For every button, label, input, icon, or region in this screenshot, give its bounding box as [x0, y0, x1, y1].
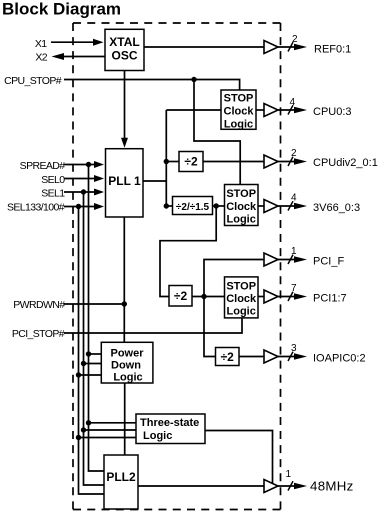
wire SEL133 stub to Power Down Logic: [79, 374, 102, 376]
wire up to PCI_F buffer: [204, 260, 264, 297]
junction div2/1.5 output: [214, 203, 219, 208]
pll U12 PLL2: [104, 455, 138, 509]
logic block U10 Power Down Logic: [101, 342, 153, 383]
output buffer CPUdiv2: [264, 148, 378, 169]
wire to div2: [166, 161, 179, 163]
wire PCI output: [278, 296, 298, 298]
wire SPREAD# into PLL 1: [64, 164, 95, 166]
buffer triangle 3V66: [264, 200, 278, 213]
wire Three-state Logic to 48MHz buffer enable: [205, 431, 273, 484]
junction SEL1: [81, 189, 86, 194]
wire SEL1 vertical bus to PLL2: [84, 192, 105, 485]
svg-text:PCI_F: PCI_F: [313, 255, 344, 267]
output buffer IOAPIC: [264, 343, 366, 364]
bus slash 3V66: [288, 201, 293, 210]
wire IOAPIC div2 to buffer: [239, 356, 264, 358]
buffer triangle PCI_F: [264, 253, 278, 266]
svg-text:4: 4: [291, 193, 297, 204]
svg-text:Three-state: Three-state: [140, 417, 199, 429]
wire STOP 3V66 to buffer: [258, 205, 264, 207]
logic block U11 Three-state Logic: [136, 414, 205, 444]
wire PWRDWN# to Power Down Logic: [64, 303, 124, 305]
wire PLL 1 feedback down to power-down node: [123, 217, 125, 342]
divider U8 ÷2 (PCI): [169, 286, 192, 307]
wire SEL1 stub to Power Down Logic: [84, 363, 102, 365]
svg-text:PWRDWN#: PWRDWN#: [13, 299, 65, 311]
svg-text:2: 2: [292, 34, 298, 45]
svg-text:PLL 1: PLL 1: [108, 174, 141, 188]
wire div2 to CPUdiv2 buffer: [203, 161, 264, 163]
wire PLL1 vertical distribution: [165, 110, 167, 207]
svg-text:CPU_STOP#: CPU_STOP#: [4, 75, 62, 87]
buffer triangle IOAPIC: [264, 350, 278, 363]
svg-text:1: 1: [286, 469, 292, 480]
logic block U7 STOP Clock Logic (PCI): [225, 277, 259, 318]
wire CPU_STOP# to STOP clock logic CPU: [64, 80, 240, 91]
junction PLL1 to div2/1.5: [164, 203, 169, 208]
wire STOP PCI to buffer: [258, 296, 264, 298]
svg-text:IOAPIC0:2: IOAPIC0:2: [313, 352, 366, 364]
svg-text:Logic: Logic: [224, 119, 253, 131]
wire SEL1 stub to Three-state Logic: [84, 429, 137, 431]
svg-text:X2: X2: [35, 52, 47, 64]
logic block U3 STOP Clock Logic (CPU): [221, 90, 256, 131]
output buffer 48MHz: [264, 469, 354, 494]
svg-text:1: 1: [291, 246, 297, 257]
wire CPU output: [278, 109, 298, 111]
svg-text:Logic: Logic: [227, 214, 256, 226]
output buffer REF: [264, 34, 351, 56]
svg-text:Clock: Clock: [226, 201, 257, 213]
pll U2 PLL 1: [106, 149, 144, 217]
svg-text:SEL0: SEL0: [41, 174, 65, 186]
svg-text:÷2: ÷2: [174, 289, 188, 303]
arrowhead IOAPIC: [294, 353, 307, 359]
bus slash PCI_F: [288, 255, 293, 264]
svg-text:3V66_0:3: 3V66_0:3: [313, 202, 360, 214]
wire to div2/1.5: [166, 205, 172, 207]
svg-text:÷2: ÷2: [221, 350, 235, 364]
svg-text:CPU0:3: CPU0:3: [313, 106, 352, 118]
junction on CPU_STOP#: [191, 77, 196, 82]
wire X1 input: [51, 41, 95, 43]
wire X2 output: [64, 56, 106, 58]
arrowhead PCI_F: [294, 256, 307, 262]
bus slash REF: [288, 42, 293, 51]
wire XTAL OSC to REF buffer: [144, 46, 264, 48]
svg-text:SEL1: SEL1: [41, 187, 65, 199]
wire REF output: [278, 46, 298, 48]
svg-text:SPREAD#: SPREAD#: [20, 160, 66, 172]
svg-text:STOP: STOP: [226, 188, 256, 200]
arrowhead PCI: [294, 293, 307, 299]
wire CPUdiv2 output: [278, 161, 298, 163]
arrowhead REF: [294, 44, 307, 50]
svg-text:7: 7: [291, 283, 297, 294]
buffer triangle PCI: [264, 290, 278, 303]
svg-text:4: 4: [290, 97, 296, 108]
logic block U6 STOP Clock Logic (3V66): [225, 185, 259, 226]
wire CPU_STOP# branch to STOP clock logic 3V66: [194, 80, 240, 185]
svg-text:X1: X1: [35, 38, 47, 50]
svg-text:PCI1:7: PCI1:7: [313, 292, 347, 304]
svg-text:Clock: Clock: [226, 293, 257, 305]
svg-text:STOP: STOP: [226, 280, 256, 292]
svg-text:Power: Power: [110, 348, 144, 360]
svg-text:SEL133/100#: SEL133/100#: [7, 201, 65, 213]
buffer triangle REF: [264, 41, 278, 54]
arrowhead 48MHz: [294, 483, 307, 489]
bus slash 48MHz: [288, 481, 293, 490]
output buffer PCI_F: [264, 246, 344, 267]
svg-text:CPUdiv2_0:1: CPUdiv2_0:1: [313, 157, 378, 169]
chip boundary dashed border: [73, 22, 281, 24]
divider U4 ÷2 (CPUdiv2): [179, 152, 203, 172]
divider U5 ÷2/÷1.5: [173, 197, 213, 215]
svg-text:3: 3: [291, 343, 297, 354]
svg-text:PLL2: PLL2: [106, 470, 136, 484]
arrowhead CPU: [294, 107, 307, 113]
svg-text:STOP: STOP: [224, 93, 254, 105]
wire SEL133/100# vertical bus to PLL2: [79, 207, 105, 495]
svg-text:Clock: Clock: [224, 106, 255, 118]
svg-text:XTAL: XTAL: [109, 35, 139, 49]
wire SEL133/100# into PLL 1: [64, 206, 95, 208]
wire SEL1 into PLL 1: [64, 191, 95, 193]
wire PLL 1 output: [143, 180, 166, 182]
wire PCI div2 to STOP PCI: [192, 296, 225, 298]
svg-text:Block Diagram: Block Diagram: [2, 0, 121, 19]
arrowhead CPUdiv2: [294, 158, 307, 164]
output buffer PCI: [264, 283, 347, 304]
svg-text:÷2: ÷2: [184, 155, 198, 169]
wire down to IOAPIC div2: [204, 297, 216, 357]
wire PCI_F output: [278, 259, 298, 261]
bus slash CPU: [288, 105, 293, 114]
wire SPREAD# stub to Three-state Logic: [89, 422, 137, 424]
oscillator U1 XTAL OSC: [105, 29, 144, 70]
wire Power Down Logic to PLL2: [124, 383, 126, 455]
wire STOP CPU to buffer: [256, 109, 264, 111]
wire SPREAD# stub to Power Down Logic: [89, 353, 102, 355]
junction PWRDWN node: [122, 301, 127, 306]
svg-text:2: 2: [291, 148, 297, 159]
wire SEL133 stub to Three-state Logic: [79, 437, 137, 439]
wire SPREAD# vertical bus to PLL2: [89, 165, 105, 472]
wire 3V66 output: [278, 205, 298, 207]
junction SEL133/100#: [76, 204, 81, 209]
buffer triangle 48MHz: [264, 480, 278, 493]
wire div2/1.5 to STOP 3V66: [213, 205, 225, 207]
wire IOAPIC output: [278, 356, 298, 358]
svg-text:Down: Down: [111, 360, 141, 372]
buffer triangle CPUdiv2: [264, 155, 278, 168]
buffer triangle CPU: [264, 104, 278, 117]
junction PLL1 to div2: [164, 159, 169, 164]
wire SEL0 into PLL 1: [64, 178, 95, 180]
wire to STOP clock logic CPU: [166, 109, 221, 111]
svg-text:OSC: OSC: [111, 49, 137, 63]
svg-text:Logic: Logic: [143, 430, 172, 442]
wire XTAL OSC to PLL 1: [124, 71, 126, 139]
bus slash PCI: [288, 292, 293, 301]
output buffer 3V66: [264, 193, 360, 214]
wire PLL2 to 48MHz buffer: [138, 485, 264, 487]
wire PCI_STOP# to STOP clock logic PCI: [64, 318, 242, 333]
svg-text:48MHz: 48MHz: [310, 479, 354, 494]
wire div2/1.5 output down to PCI div2: [160, 206, 216, 297]
wire 48MHz output: [278, 485, 298, 487]
svg-text:Logic: Logic: [113, 372, 142, 384]
arrowhead 3V66: [294, 203, 307, 209]
svg-text:÷2/÷1.5: ÷2/÷1.5: [176, 202, 210, 213]
divider U9 ÷2 (IOAPIC): [216, 348, 240, 366]
bus slash CPUdiv2: [288, 157, 293, 166]
svg-text:PCI_STOP#: PCI_STOP#: [12, 328, 65, 340]
svg-text:Logic: Logic: [227, 306, 256, 318]
svg-text:REF0:1: REF0:1: [314, 43, 351, 55]
bus slash IOAPIC: [288, 352, 293, 361]
output buffer CPU: [264, 97, 352, 118]
junction SPREAD#: [86, 162, 91, 167]
junction PCI div2 output: [201, 294, 206, 299]
